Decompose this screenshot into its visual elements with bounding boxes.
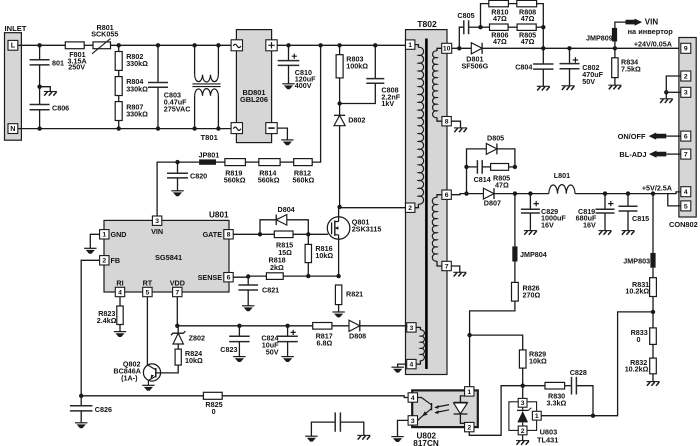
ground T802 pin 8 [451,121,467,132]
svg-text:C815: C815 [632,214,649,223]
svg-text:T801: T801 [201,133,219,142]
capacitor C823 [220,326,249,357]
pin 6 of CON802 [681,131,691,141]
transistor Q802 BC846A [113,360,160,386]
svg-text:400V: 400V [295,81,312,90]
arrow BL-ADJ [619,150,680,159]
svg-text:16V: 16V [541,220,554,229]
svg-text:817CN: 817CN [413,439,439,446]
resistor R817 6.8ohm [313,323,333,348]
pin 9 of CON802 [681,43,691,53]
svg-text:U801: U801 [209,211,229,220]
ground C824 [281,357,293,362]
pin 4 of T802 [407,359,416,368]
connector CON802 [669,38,698,230]
wire pin 2 to Q801 drain [337,205,405,209]
svg-text:VIN: VIN [151,227,163,236]
wire CON802 pins 2-3 to ground [660,76,681,103]
capacitor C819 680uF 16V [576,194,615,231]
wire CON802 pin 5 riser [668,194,681,206]
svg-text:2: 2 [102,258,106,265]
capacitor C815 [619,194,650,231]
resistor R834 7.5k [612,48,641,85]
pin 2 of U803 [518,426,527,435]
svg-text:R821: R821 [346,290,363,299]
ground Y-cap left [305,436,317,441]
svg-text:10kΩ: 10kΩ [529,357,547,366]
svg-text:JP801: JP801 [199,150,220,159]
capacitor C821 [238,277,279,306]
svg-text:VIN: VIN [645,18,659,27]
pin 2 of CON802 [681,71,691,81]
wire Q801 source to sense node [336,239,340,278]
ground R821 [332,312,344,317]
pin 4 of U802 [408,393,417,402]
svg-text:C828: C828 [570,368,587,377]
wire R814 to R812 [280,161,294,163]
wire N rail [18,126,237,130]
svg-text:VDD: VDD [170,279,185,288]
winding T802 secondary pins 6-7 [432,195,442,266]
label +5V/2.5A [642,184,672,193]
svg-text:6: 6 [684,134,688,141]
svg-text:ON/OFF: ON/OFF [618,132,646,141]
resistor R829 10k [519,349,547,385]
svg-text:2SK3115: 2SK3115 [352,225,382,234]
svg-text:330kΩ: 330kΩ [126,110,148,119]
pin 1 of U802 [465,387,474,396]
wire GATE to R815 [233,232,274,236]
svg-text:BL-ADJ: BL-ADJ [619,150,646,159]
svg-text:7: 7 [175,289,179,296]
phototransistor of U802 [418,398,432,421]
resistor R807 [115,96,148,129]
svg-text:C823: C823 [220,345,237,354]
svg-text:47Ω: 47Ω [521,14,535,23]
wire pin 10 rail [452,46,472,50]
svg-text:6.8Ω: 6.8Ω [317,339,333,348]
pin 2 of U802 [465,422,474,431]
diode D802 [334,101,365,206]
resistor R814 560k [258,159,280,185]
svg-text:10: 10 [443,46,451,53]
svg-text:330kΩ: 330kΩ [126,84,148,93]
wire L rail [18,43,237,47]
ground C804 [537,86,550,90]
pin 1 of T802 [406,40,415,49]
capacitor C803 [148,45,190,128]
wire Q802 base to R824 [156,365,178,373]
ground C815 [622,231,635,235]
pin 2 FB of U801 [100,256,120,265]
jumper JP801 [199,150,220,164]
terminal N [8,124,18,134]
wire FB to bottom rail [81,260,99,396]
svg-text:JMP803: JMP803 [623,256,650,265]
svg-text:N: N [10,124,15,133]
svg-text:GBL206: GBL206 [240,95,268,104]
resistor R806 47ohm [481,24,509,46]
svg-text:560kΩ: 560kΩ [293,176,315,185]
wire HV+ rail [277,43,406,47]
svg-text:RI: RI [116,279,123,288]
ground C821 [242,306,254,311]
wire +5V rail [513,191,681,195]
wire VDD rail [175,297,349,328]
svg-text:4: 4 [410,362,414,369]
resistor R824 10k [175,349,203,365]
svg-text:10kΩ: 10kΩ [185,356,203,365]
svg-text:47Ω: 47Ω [493,14,507,23]
svg-text:D807: D807 [484,198,501,207]
terminal - of BD801 [266,123,277,134]
wire R806 to R805 [508,26,517,28]
svg-text:FB: FB [111,256,121,265]
svg-text:4: 4 [411,395,415,402]
diode D801 SF506G [462,43,489,71]
ground R834 [608,85,621,89]
capacitor C829 1000uF 16V [521,194,566,231]
resistor R819 560k [224,159,246,185]
choke T801 [192,45,220,142]
ground T802 pin 4 [392,364,407,373]
connector INLET [5,24,27,140]
svg-text:2: 2 [408,205,412,212]
wire RT to Q802 collector [146,297,148,365]
svg-text:2.4kΩ: 2.4kΩ [97,316,117,325]
capacitor C810 120uF 400V [278,45,316,90]
capacitor C808 2.2nF 1kV [340,45,401,108]
resistor R821 [335,285,363,312]
svg-text:1: 1 [102,232,106,239]
fuse F801 [65,42,86,71]
terminal ~ bottom of BD801 [231,123,242,134]
svg-text:C805: C805 [457,11,474,20]
wire snubber right riser [536,4,545,49]
resistor R830 3.3k [545,382,566,407]
resistor R825 0ohm [203,392,222,416]
bridge rectifier BD801 GBL206 [236,30,271,143]
svg-text:1: 1 [408,42,412,49]
diode D804 [260,205,308,234]
svg-text:8: 8 [445,119,449,126]
wire R810 to R808 [508,3,516,5]
svg-text:250V: 250V [68,62,85,71]
svg-text:5: 5 [684,203,688,210]
ground C810 [282,84,294,89]
ground U803 pin 2 [516,435,529,445]
resistor R815 15ohm [274,231,293,257]
resistor R805 47ohm snubber [491,164,518,190]
capacitor C820 [167,162,207,191]
resistor R802 [115,45,148,70]
ground Q802 emitter [142,385,154,390]
svg-text:SCK055: SCK055 [91,30,118,39]
optocoupler U802 817CN [412,390,478,446]
svg-text:L: L [11,41,16,50]
ground C820 [171,191,183,196]
wire node to R829 [470,335,523,350]
ground U801 pin 1 [84,234,100,253]
svg-text:10.2kΩ: 10.2kΩ [625,365,649,374]
capacitor C824 10uF 50V [261,326,297,357]
capacitor C826 [70,396,112,423]
svg-text:L801: L801 [554,171,570,180]
svg-text:7: 7 [445,263,449,270]
svg-text:50V: 50V [582,77,595,86]
ground C819 [599,231,612,235]
ground C802 [562,86,575,90]
svg-text:50V: 50V [266,348,279,357]
wire R812 up to HV rail [312,45,320,162]
svg-text:275VAC: 275VAC [164,105,191,114]
resistor R823 2.4k [97,297,123,332]
svg-text:270Ω: 270Ω [523,291,541,300]
pin 8 of T802 [442,117,451,126]
capacitor C805 [457,11,480,48]
svg-text:3.3kΩ: 3.3kΩ [547,398,567,407]
pin 10 of T802 [442,43,452,53]
winding T802 primary pins 1-2 [415,45,424,208]
svg-text:2: 2 [521,428,525,435]
svg-text:6: 6 [227,275,231,282]
ground Y-cap right [357,435,370,439]
resistor R808 47ohm [517,0,537,23]
wire +24V rail [482,46,681,50]
resistor R832 10.2k [625,358,657,382]
capacitor C802 470uF 50V [560,48,604,86]
svg-text:+5V/2.5A: +5V/2.5A [642,184,672,193]
svg-text:16V: 16V [583,220,596,229]
wire JP801 to R819 [216,161,225,163]
IC U801 SG5841 [104,211,229,293]
light arrows of U802 [434,405,449,414]
jumper JMP804 [512,194,546,283]
svg-text:10.2kΩ: 10.2kΩ [625,287,649,296]
capacitor C806 [30,87,70,129]
arrow VIN to inverter [626,18,674,37]
pin 4 of CON802 [681,187,691,197]
terminal + of BD801 [266,40,277,51]
wire Q801 drain [338,207,340,217]
svg-text:SENSE: SENSE [198,273,223,282]
resistor R816 10k [305,234,333,278]
pin 3 VIN of U801 [151,216,163,236]
resistor R833 0ohm [631,328,657,358]
svg-text:5: 5 [146,289,150,296]
resistor R818 2k [266,256,285,280]
svg-text:0: 0 [637,335,641,344]
pin 1 GND of U801 [100,230,127,239]
ground C826 [75,423,87,428]
diode snubber D805 [467,133,515,193]
wire R826 to opto supply node [467,301,515,387]
arrow ON/OFF [618,132,681,141]
svg-text:GND: GND [111,230,127,239]
svg-text:8: 8 [227,232,231,239]
wire bottom feedback rail [79,394,409,398]
wire snubber left riser [478,4,489,30]
pin 3 of U802 [408,416,417,425]
capacitor Y bridging grounds [311,412,363,436]
capacitor 801 [30,45,64,86]
svg-text:D808: D808 [349,332,366,341]
capacitor C814 [464,160,490,184]
wire TL431 ref node [541,414,595,418]
capacitor C828 [565,368,593,416]
pin 7 of CON802 [681,149,691,159]
ground BD801 minus [277,128,293,145]
pin 1 of U803 [532,411,541,420]
resistor R803 100k [336,45,368,103]
svg-text:100kΩ: 100kΩ [346,62,368,71]
svg-text:TL431: TL431 [537,436,558,445]
thermistor R801 SCK055 [91,23,118,54]
wire R819 to R814 [245,161,258,163]
svg-text:GATE: GATE [203,230,223,239]
svg-text:330kΩ: 330kΩ [126,59,148,68]
pin 3 of T802 [407,323,416,332]
transformer T802 [406,19,448,375]
pin 7 of T802 [442,261,451,270]
svg-text:801: 801 [52,58,64,67]
ground R823 [114,332,126,337]
svg-text:D805: D805 [487,133,504,142]
svg-text:9: 9 [684,46,688,53]
svg-text:2: 2 [684,73,688,80]
terminal ~ top of BD801 [231,40,242,51]
resistor R826 270ohm [512,282,541,301]
pin 5 RT of U801 [143,279,153,297]
resistor R812 560k [293,159,315,185]
svg-text:2kΩ: 2kΩ [270,263,284,272]
svg-text:CON802: CON802 [669,220,698,229]
resistor R810 47ohm [489,0,509,23]
wire U802 pin2 to fb node [469,386,522,436]
LED of U802 [454,396,470,423]
svg-text:7: 7 [684,152,688,159]
svg-text:6: 6 [445,192,449,199]
svg-text:D802: D802 [348,115,365,124]
svg-text:7.5kΩ: 7.5kΩ [621,64,641,73]
svg-text:C814: C814 [474,175,491,184]
pin 8 GATE of U801 [203,230,234,239]
terminal L [8,40,18,50]
pin 6 of T802 [442,190,451,199]
ground C829 [524,231,537,235]
svg-text:47Ω: 47Ω [493,37,507,46]
resistor R804 [115,70,148,95]
svg-text:3: 3 [155,218,159,225]
svg-text:+24V/0.05A: +24V/0.05A [634,39,672,48]
svg-text:2: 2 [467,425,471,432]
svg-text:на инвертор: на инвертор [628,27,674,36]
svg-text:10kΩ: 10kΩ [315,251,333,260]
pin 6 SENSE of U801 [198,273,234,283]
capacitor C804 [515,48,553,86]
svg-text:C804: C804 [515,62,532,71]
ground R832 [647,382,660,386]
resistor R805 47ohm upper [517,24,536,46]
pin 7 VDD of U801 [170,279,185,297]
zener Z802 [171,326,205,349]
pin 3 of CON802 [681,87,691,97]
svg-text:3: 3 [521,400,525,407]
inductor L801 [549,171,575,193]
svg-text:Z802: Z802 [189,334,205,343]
transistor Q801 2SK3115 MOSFET [327,217,381,240]
svg-text:T802: T802 [417,19,437,29]
wire R815 to Q801 gate [293,232,328,236]
svg-text:560kΩ: 560kΩ [224,176,246,185]
svg-text:1kV: 1kV [381,99,394,108]
pin 3 of U803 [518,386,527,408]
svg-text:C821: C821 [262,285,279,294]
resistor R831 10.2k [625,278,656,312]
svg-text:C826: C826 [95,405,112,414]
wire fb node [521,384,546,388]
svg-text:1: 1 [535,413,539,420]
svg-text:47Ω: 47Ω [495,181,509,190]
ground U802 pin 3 [391,420,408,442]
svg-text:C806: C806 [52,103,69,112]
pin 4 RI of U801 [115,279,124,297]
svg-text:0: 0 [212,407,216,416]
shunt regulator U803 TL431 [509,402,558,445]
wire startup rail JP801 [157,160,199,216]
ground T802 pin 7 [451,266,466,277]
svg-text:INLET: INLET [5,24,27,33]
svg-text:1: 1 [467,389,471,396]
label +24V/0.05A [634,39,672,48]
jumper JMP803 [623,194,655,278]
pin 2 of T802 [406,203,415,212]
diode D807 [451,188,515,207]
svg-text:3: 3 [411,418,415,425]
svg-text:4: 4 [684,189,688,196]
svg-text:47Ω: 47Ω [521,37,535,46]
ground C801 node [37,85,56,96]
pin 5 of CON802 [681,201,691,211]
svg-text:JMP804: JMP804 [520,250,547,259]
svg-text:3: 3 [410,325,414,332]
svg-text:560kΩ: 560kΩ [258,176,280,185]
diode D808 [349,320,407,340]
svg-text:JMP809: JMP809 [586,33,613,42]
svg-text:3: 3 [684,90,688,97]
svg-text:C820: C820 [190,172,207,181]
winding T802 aux pins 3-4 [416,327,424,364]
svg-text:(1A-): (1A-) [121,374,138,383]
jumper JMP809 [586,22,626,48]
svg-text:SF506G: SF506G [462,61,489,70]
wire divider node [593,310,655,416]
svg-text:4: 4 [118,289,122,296]
wire SENSE rail [233,274,338,278]
svg-text:D804: D804 [278,205,295,214]
svg-text:RT: RT [143,279,153,288]
winding T802 secondary pins 10-8 [433,48,442,121]
ground C823 [233,357,245,362]
svg-text:SG5841: SG5841 [155,253,182,262]
